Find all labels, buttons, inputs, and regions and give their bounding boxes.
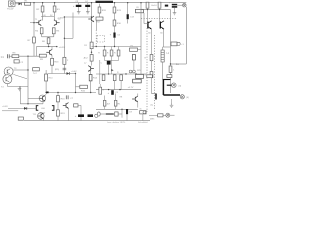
wire C11 gnd [174, 8, 176, 11]
wire C3 gnd [78, 7, 80, 10]
wire mid bias [48, 73, 67, 75]
resistor R18 vertical [113, 7, 116, 13]
wire top supply bus [15, 2, 186, 4]
wire x141 vertical [140, 3, 142, 50]
wire left riser [19, 86, 21, 103]
wire jack link [177, 4, 182, 6]
wire R30 down [151, 78, 153, 94]
wire T15 down [137, 102, 139, 108]
wire R29 up [151, 30, 153, 55]
component box R17 [96, 17, 103, 20]
transistor T2 [54, 20, 60, 26]
resistor R29 vertical [150, 55, 153, 61]
input jack Bu1 [8, 1, 15, 6]
resistor R6 tail [47, 38, 50, 44]
output jack LS+ [172, 83, 177, 88]
wire right rail h [141, 9, 171, 11]
vertical x122 [121, 109, 123, 117]
resistor R23 vertical [113, 75, 116, 81]
wire T6 up [91, 3, 93, 17]
fuse Si2 box [140, 111, 146, 114]
resistor R35 vertical [103, 100, 106, 106]
wire R2 bottom to T1 [42, 12, 44, 21]
wire T12 emitter down [68, 108, 70, 120]
wire R3 top [54, 3, 56, 6]
wire R20 top [104, 47, 106, 51]
thick output wire top [163, 79, 171, 81]
junction tail mid [48, 46, 49, 47]
junction right mid [56, 46, 57, 47]
wire jack LS+ [167, 84, 172, 86]
bootstrap vertical [72, 13, 74, 39]
wire C5 down [127, 19, 129, 23]
wire bottom left 2 [2, 110, 18, 112]
capacitor C15 electrolytic bottom [111, 90, 114, 95]
wire emitters join [41, 34, 43, 37]
wire C5 up [127, 3, 129, 15]
svg-text:+0.6V: +0.6V [2, 106, 8, 108]
ground near T4 [18, 86, 22, 90]
wire fuse down [142, 114, 144, 121]
wire R8 right [19, 55, 40, 57]
transistor T3 can [4, 67, 13, 76]
resistor R28 vertical [158, 2, 161, 8]
wire right edge horiz [171, 63, 187, 65]
wire mid horizontal [92, 46, 142, 48]
capacitor parallel bars [63, 68, 67, 70]
wire left mid riser [99, 60, 101, 84]
output terminal top [183, 3, 187, 7]
fuse circle [143, 111, 146, 114]
resistor R1 horizontal [25, 2, 31, 5]
component small dark box [132, 55, 135, 61]
resistor R20 vertical [103, 50, 106, 56]
dashed box center [97, 35, 105, 37]
wire R14b down [45, 81, 47, 93]
wire R19 down [114, 26, 116, 33]
svg-text:(R5): (R5) [55, 69, 59, 71]
svg-text:+0.6V: +0.6V [71, 71, 77, 73]
wire T10 collector [45, 92, 47, 95]
wire bottom bus 1 [20, 103, 43, 105]
ground right top [173, 11, 177, 15]
capacitor C13 electrolytic [78, 114, 84, 117]
resistor R21 vertical [110, 50, 113, 56]
svg-text:(aus: elektor 1975): (aus: elektor 1975) [107, 121, 126, 123]
junction C8 [108, 73, 109, 74]
wire T4 emitter down [6, 84, 8, 87]
junction input node [33, 2, 34, 3]
resistor R33 vertical [57, 110, 60, 116]
junction T6 top [91, 16, 92, 17]
wire bottom mid h [96, 108, 138, 110]
wire R35 bot [104, 106, 106, 109]
capacitor C14 electrolytic [88, 114, 94, 117]
wire R32 down [57, 102, 59, 110]
wire R18 top [114, 3, 116, 7]
wire T5 collector up [51, 47, 53, 50]
wire C4 stub [87, 3, 89, 5]
resistor R10 vertical [51, 58, 54, 65]
small ellipse component [97, 112, 100, 116]
component box R31 [147, 75, 153, 78]
wire R13b down [91, 61, 93, 65]
wire right rail vertical [170, 10, 172, 93]
resistor R16 vertical [98, 7, 101, 13]
junction R14b [45, 92, 46, 93]
junction R13 mid [91, 52, 92, 53]
wire bottom bus 3 [100, 120, 150, 122]
wire T11 down [43, 119, 45, 121]
junction R11 wire [64, 16, 65, 17]
wire C1 to R8 [9, 55, 12, 57]
resistor R19 vertical [113, 20, 116, 26]
resistor R37 horizontal [158, 114, 163, 117]
junction bias [75, 73, 76, 74]
wire bottom right h [149, 114, 166, 116]
capacitor C7 electrolytic vertical [113, 33, 115, 38]
wire bottom bus 2 [24, 120, 100, 122]
junction T1 base [33, 22, 34, 23]
wire T10 down [42, 101, 44, 104]
junction R2 bus [42, 2, 43, 3]
resistor R13b vertical [90, 55, 93, 62]
wire node A down [27, 56, 29, 103]
wire T6 emitter down [91, 22, 93, 42]
dark wire segment bottom right [155, 94, 157, 100]
transistor T5 [46, 49, 52, 55]
component C6 box top [136, 9, 144, 13]
capacitor C11 electrolytic stack [172, 4, 177, 6]
resistor R11 vertical [63, 57, 66, 64]
wire L1 up [162, 47, 164, 50]
junction mid bottom [75, 92, 76, 93]
junction x122 [121, 109, 122, 110]
wire x141 lower [140, 50, 142, 75]
svg-text:Schaltbild: Schaltbild [138, 121, 148, 123]
svg-text:U=0.6: U=0.6 [151, 5, 157, 7]
wire tail [48, 37, 50, 38]
junction mid a [96, 46, 97, 47]
resistor R25 horizontal [136, 74, 144, 78]
diode D3 [24, 107, 27, 110]
dashed vertical feedback [95, 30, 97, 47]
wire mid lower horiz [96, 89, 141, 91]
capacitor C5 vertical dark [127, 14, 129, 19]
wire R14b up [45, 70, 47, 74]
resistor R5 emitter T2 [52, 28, 55, 34]
junction R18 [114, 2, 115, 3]
bootstrap horizontal [64, 37, 73, 39]
junction C5 bus [127, 2, 128, 3]
dotted heatsink line horizontal [141, 17, 177, 19]
wire R2 top [42, 3, 44, 6]
wire link down [111, 61, 113, 75]
thermal bracket right [52, 106, 54, 111]
wire mid bottom [47, 92, 96, 94]
wire bottom left input [8, 107, 36, 109]
wire input drop to T1 base [33, 3, 35, 23]
thick output wire vertical [162, 80, 164, 96]
wire T3 collector right [13, 69, 28, 71]
svg-text:+0.7V: +0.7V [128, 87, 134, 89]
transistor T15 [132, 96, 138, 102]
wire x81 riser [80, 105, 82, 111]
junction bottom [27, 103, 28, 104]
output jack LS- [180, 95, 184, 99]
junction R32 [57, 92, 58, 93]
wire R14 down [90, 81, 92, 93]
wire right edge vertical [185, 7, 187, 64]
wire R36 top [115, 94, 117, 101]
wire R13-R13b [91, 49, 93, 55]
resistor R8 horizontal [12, 55, 19, 58]
wire R11 down [63, 64, 65, 73]
wire R3 bottom to T2 [54, 12, 56, 21]
wire R7 bottom [33, 43, 35, 56]
wire C4 gnd [87, 7, 89, 10]
capacitor C4 electrolytic [85, 5, 90, 7]
junction node A [27, 56, 28, 57]
capacitor C10 small [165, 5, 168, 7]
wire R20 bot [104, 56, 106, 61]
diode small mid [111, 69, 113, 71]
wire C8 down [108, 65, 110, 74]
wire gnd br [171, 99, 173, 103]
resistor R31b on rail [169, 66, 172, 72]
wire R17 down [95, 20, 97, 30]
resistor R4 emitter T1 [40, 28, 43, 34]
diode D2 [67, 72, 70, 75]
diode D1 arrow [19, 2, 22, 5]
wire mid long horizontal [96, 73, 147, 75]
transistor T9 power [160, 21, 164, 29]
wire drop from R8 node [35, 47, 37, 57]
wire y114 left [100, 113, 106, 115]
capacitor C3 electrolytic [76, 5, 82, 7]
resistor R32 vertical [57, 96, 60, 102]
thick output wire bottom [163, 94, 180, 96]
capacitor C1 [7, 54, 9, 58]
resistor R12 horizontal [33, 68, 40, 71]
junction lower [108, 89, 109, 90]
ground C3 [77, 10, 81, 14]
wire bias vertical [75, 74, 77, 93]
wire R29-R30 [151, 61, 153, 72]
wire T2 collector link right [64, 16, 91, 18]
junction mid long [125, 73, 126, 74]
svg-text:+0.5V: +0.5V [7, 8, 14, 11]
wire R18 mid [114, 13, 116, 20]
junction T6 bus [91, 2, 92, 3]
coil L1 [161, 50, 164, 62]
transistor T7 driver [88, 66, 94, 72]
wire input stub [15, 3, 19, 5]
wire T10 base [28, 97, 39, 99]
small circle bottom [95, 114, 98, 117]
wire T7 emitter down [90, 71, 92, 75]
wire R33 down [57, 116, 59, 121]
resistor R3 vertical [53, 6, 56, 12]
wire tail down [48, 44, 50, 47]
resistor R30 vertical [150, 72, 153, 78]
thermal bracket left [36, 106, 38, 111]
fuse Si1 box [171, 42, 177, 46]
transistor T1 [36, 20, 42, 26]
component small box bm [74, 104, 78, 107]
transistor T12 [63, 103, 69, 109]
resistor R13 vertical [90, 42, 93, 49]
component box small right [167, 75, 172, 78]
wire seg link [152, 93, 157, 95]
resistor R23b left [102, 75, 105, 81]
resistor R15 horizontal [80, 85, 88, 88]
svg-text:(3): (3) [179, 86, 182, 88]
wire left mid horizontal [36, 46, 56, 48]
transistor T10 can [39, 95, 46, 102]
wire T1 base from input [30, 22, 36, 24]
resistor R24 vertical [120, 75, 123, 81]
wire R23 bottom [114, 81, 116, 90]
dotted heatsink vertical [146, 28, 148, 112]
resistor R14 vertical dark [89, 75, 92, 81]
wire T9 base drop [159, 10, 161, 22]
resistor R36 vertical [114, 100, 117, 106]
output jack bottom [166, 113, 170, 117]
resistor R34 vertical dark [99, 87, 102, 94]
wire jack bottom right [170, 114, 175, 116]
capacitor C12 marks [66, 95, 68, 99]
wire R16 bottom [99, 13, 101, 17]
wire T5 emitter down [51, 55, 53, 58]
wire C3 stub [78, 3, 80, 5]
wire R35 top [104, 96, 106, 101]
wire caps stub [80, 111, 82, 114]
junction T3 node [27, 69, 28, 70]
wire R32 top [57, 93, 59, 96]
wire C16 down [126, 114, 128, 120]
wire R34 up [99, 84, 101, 87]
wire T9 collector down [163, 29, 165, 47]
ground bottom right [170, 103, 174, 107]
wire R10 down [51, 65, 53, 73]
wire T3-T4 diagonal [13, 74, 27, 78]
junction x141 bus [140, 2, 141, 3]
junction R3 bus [54, 2, 55, 3]
capacitor C16 dark vertical [126, 109, 128, 114]
junction right rail [170, 63, 171, 64]
wire R15 left [76, 86, 80, 88]
wire R16 top [99, 4, 101, 7]
junction r1 [147, 9, 148, 10]
heavy bus segment [96, 1, 114, 3]
dotted heatsink vertical 2 [154, 35, 156, 110]
ground C4 [86, 10, 90, 14]
component bottom small box [18, 117, 23, 120]
wire C7 down [114, 38, 116, 47]
capacitor C8 dark [107, 61, 111, 65]
resistor R7 feedback vertical [33, 37, 36, 43]
dark wire segment y114 [106, 113, 114, 115]
resistor R2 vertical [41, 6, 44, 12]
transistor T8 power [148, 21, 152, 29]
wire T8 base lead [147, 10, 149, 22]
wire T15 up [137, 94, 139, 97]
wire R bottom link [105, 60, 119, 62]
resistor R22 vertical [117, 50, 120, 56]
resistor R26 horizontal dark [133, 79, 142, 83]
component box y114 [115, 112, 118, 116]
trimmer circles [129, 70, 132, 73]
trimmer P1 horizontal [130, 48, 138, 51]
transistor T6 [88, 16, 94, 22]
transistor T11 can [38, 113, 45, 120]
transistor T4 can [3, 75, 12, 84]
wire L1 down [162, 62, 164, 80]
wire collector link [41, 16, 54, 18]
resistor R27 vertical [146, 2, 149, 8]
resistor R14b vertical [45, 74, 48, 81]
junction bootstrap [64, 38, 65, 39]
wire box bm right [78, 104, 81, 106]
fuse Si1 circle [177, 42, 180, 45]
dark junction blob [46, 92, 48, 94]
svg-text:(4): (4) [186, 97, 189, 99]
capacitor C2 box [14, 60, 19, 63]
wire small box down [133, 60, 135, 70]
svg-text:(1): (1) [151, 105, 154, 107]
wire y114 right [118, 113, 122, 115]
resistor R9 horizontal [39, 54, 46, 57]
wire P1 right [138, 49, 142, 51]
wire R11 up [63, 17, 65, 57]
